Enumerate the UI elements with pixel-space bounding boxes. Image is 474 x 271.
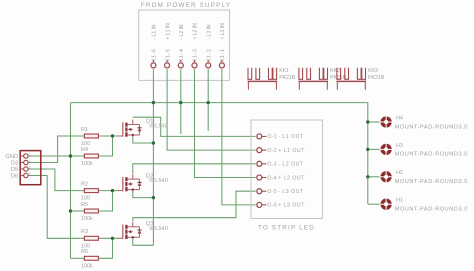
wire +L1 IN to O-2 bbox=[167, 69, 256, 150]
svg-text:+ L2 OUT: + L2 OUT bbox=[278, 175, 305, 181]
svg-text:IRL540: IRL540 bbox=[149, 124, 168, 130]
transistor Q3 IRL540 bbox=[118, 221, 168, 239]
pin D3 bbox=[11, 159, 31, 167]
svg-text:+ L3 OUT: + L3 OUT bbox=[278, 203, 305, 209]
junction bbox=[111, 189, 114, 192]
svg-text:H2: H2 bbox=[396, 170, 403, 176]
heatsink KK2 PK21B bbox=[299, 68, 347, 90]
mount pad H3 MOUNT-PAD-ROUND3.0 bbox=[380, 143, 468, 158]
mount pad H2 MOUNT-PAD-ROUND3.0 bbox=[380, 170, 468, 185]
svg-text:R4: R4 bbox=[81, 147, 88, 153]
junction bbox=[366, 120, 369, 123]
svg-text:D6: D6 bbox=[11, 173, 18, 179]
svg-text:100k: 100k bbox=[81, 161, 93, 167]
svg-text:X1-4: X1-4 bbox=[179, 49, 185, 63]
wire R2 to gate Q2 bbox=[98, 190, 118, 192]
junction bbox=[152, 196, 155, 199]
pin X1-6 net - L1 IN bbox=[151, 24, 158, 68]
wire Q2 source to GND bbox=[133, 190, 154, 198]
wire +L2 IN to O-4 bbox=[195, 69, 256, 177]
mount pad H1 MOUNT-PAD-ROUND3.0 bbox=[380, 198, 468, 213]
pin O-3 net - L2 OUT bbox=[257, 161, 304, 167]
pin X1-4 net - L2 IN bbox=[178, 24, 185, 68]
wire D3 to R1 bbox=[28, 136, 84, 163]
resistor R1 100 bbox=[81, 127, 98, 147]
svg-text:+ L2 IN: + L2 IN bbox=[193, 23, 199, 40]
svg-text:R3: R3 bbox=[81, 229, 88, 235]
svg-text:- L1 IN: - L1 IN bbox=[152, 24, 158, 39]
svg-text:X1-6: X1-6 bbox=[152, 49, 158, 63]
svg-text:O-5: O-5 bbox=[267, 189, 277, 195]
svg-text:100k: 100k bbox=[81, 263, 93, 269]
heatsink KK3 PK21B bbox=[337, 68, 385, 90]
svg-text:MOUNT-PAD-ROUND3.0: MOUNT-PAD-ROUND3.0 bbox=[395, 152, 468, 158]
wire R5 to gate junction bbox=[98, 191, 112, 211]
wire GND left vertical bbox=[70, 103, 72, 259]
wire Q3 drain to output bbox=[133, 191, 256, 221]
wire D5 to R2 bbox=[28, 169, 84, 191]
resistor R6 100k bbox=[81, 249, 98, 269]
svg-text:TO STRIP LED: TO STRIP LED bbox=[258, 225, 315, 232]
svg-text:R5: R5 bbox=[81, 202, 88, 208]
junction bbox=[152, 141, 155, 144]
svg-text:IRL540: IRL540 bbox=[149, 226, 168, 232]
svg-text:O-2: O-2 bbox=[267, 148, 277, 154]
svg-text:- L2 OUT: - L2 OUT bbox=[278, 162, 304, 168]
svg-text:- L2 IN: - L2 IN bbox=[179, 24, 185, 39]
svg-text:+ L1 OUT: + L1 OUT bbox=[278, 148, 305, 154]
svg-text:100: 100 bbox=[81, 196, 90, 202]
wire R6 to gate junction bbox=[98, 238, 112, 258]
svg-text:KK2: KK2 bbox=[330, 68, 340, 74]
svg-text:KK1: KK1 bbox=[279, 68, 289, 74]
svg-text:1: 1 bbox=[29, 152, 31, 156]
svg-text:+ L3 IN: + L3 IN bbox=[220, 23, 226, 40]
svg-text:R6: R6 bbox=[81, 249, 88, 255]
wire -L2 IN stub bbox=[180, 69, 182, 134]
svg-text:PK21B: PK21B bbox=[368, 75, 385, 81]
svg-text:PK21B: PK21B bbox=[279, 75, 296, 81]
wire -L1 IN vertical (net GND) bbox=[152, 69, 154, 245]
svg-text:GND: GND bbox=[5, 154, 18, 160]
wire -L3 IN stub bbox=[207, 69, 209, 131]
svg-text:X1-2: X1-2 bbox=[206, 49, 212, 63]
connector TO STRIP LED box bbox=[251, 120, 323, 232]
svg-text:100k: 100k bbox=[81, 216, 93, 222]
junction bbox=[111, 134, 114, 137]
transistor Q1 IRL540 bbox=[118, 119, 168, 137]
resistor R4 100k bbox=[81, 147, 98, 167]
pin X1-2 net - L3 IN bbox=[206, 24, 213, 68]
svg-text:IRL540: IRL540 bbox=[149, 178, 168, 184]
junction bbox=[366, 148, 369, 151]
junction bbox=[111, 237, 114, 240]
pin O-6 net + L3 OUT bbox=[257, 202, 305, 208]
svg-text:FROM POWER SUPPLY: FROM POWER SUPPLY bbox=[141, 2, 231, 9]
connector SV1 box bbox=[20, 151, 41, 185]
svg-text:O-3: O-3 bbox=[267, 162, 277, 168]
junction bbox=[152, 101, 155, 104]
svg-text:MOUNT-PAD-ROUND3.0: MOUNT-PAD-ROUND3.0 bbox=[395, 207, 468, 213]
pin X1-1 net + L3 IN bbox=[219, 23, 226, 68]
svg-text:- L1 OUT: - L1 OUT bbox=[278, 134, 304, 140]
svg-text:4: 4 bbox=[29, 172, 31, 176]
junction bbox=[69, 154, 72, 157]
svg-text:- L3 IN: - L3 IN bbox=[206, 24, 212, 39]
wire Q3 source to GND bbox=[133, 237, 154, 245]
resistor R3 100 bbox=[81, 229, 98, 249]
wire Q2 drain to output bbox=[133, 164, 256, 174]
svg-text:MOUNT-PAD-ROUND3.0: MOUNT-PAD-ROUND3.0 bbox=[395, 179, 468, 185]
wire GND bus bbox=[71, 103, 368, 204]
svg-text:O-6: O-6 bbox=[267, 203, 277, 209]
wire R3 to gate Q3 bbox=[98, 237, 118, 239]
svg-text:R1: R1 bbox=[81, 127, 88, 133]
svg-text:O-1: O-1 bbox=[267, 134, 277, 140]
svg-text:R2: R2 bbox=[81, 181, 88, 187]
junction bbox=[366, 175, 369, 178]
pin O-2 net + L1 OUT bbox=[257, 148, 305, 154]
svg-text:2: 2 bbox=[29, 159, 31, 163]
mount pad H4 MOUNT-PAD-ROUND3.0 bbox=[380, 115, 468, 130]
heatsink KK1 PK21B bbox=[248, 68, 296, 90]
svg-text:- L3 OUT: - L3 OUT bbox=[278, 189, 304, 195]
svg-text:MOUNT-PAD-ROUND3.0: MOUNT-PAD-ROUND3.0 bbox=[395, 124, 468, 130]
svg-text:X1-3: X1-3 bbox=[193, 49, 199, 63]
pin X1-5 net + L1 IN bbox=[165, 23, 172, 68]
svg-text:H4: H4 bbox=[396, 115, 403, 121]
svg-text:+ L1 IN: + L1 IN bbox=[165, 23, 171, 40]
resistor R2 100 bbox=[81, 181, 98, 201]
svg-text:D5: D5 bbox=[11, 167, 18, 173]
transistor Q2 IRL540 bbox=[118, 173, 168, 191]
svg-text:D3: D3 bbox=[11, 160, 18, 166]
pin O-5 net - L3 OUT bbox=[257, 189, 304, 195]
junction bbox=[69, 209, 72, 212]
wire mount pad H3 bbox=[368, 148, 381, 150]
wire mount pad H2 bbox=[368, 176, 381, 178]
pin X1-3 net + L2 IN bbox=[192, 23, 199, 68]
svg-text:X1-1: X1-1 bbox=[220, 49, 226, 63]
wire Q1 drain to output bbox=[133, 117, 256, 136]
wire Q1 source to GND bbox=[133, 135, 154, 143]
connector X1 FROM POWER SUPPLY box bbox=[139, 2, 231, 80]
wire R4 to gate junction bbox=[98, 136, 112, 156]
wire R5 row bbox=[71, 210, 85, 212]
svg-text:O-4: O-4 bbox=[267, 175, 277, 181]
wire mount pad H4 bbox=[368, 121, 381, 123]
pin O-4 net + L2 OUT bbox=[257, 175, 305, 181]
svg-text:H3: H3 bbox=[396, 143, 403, 149]
wire R1 to gate Q1 bbox=[98, 135, 118, 137]
wire D6 to R3 bbox=[28, 176, 84, 239]
svg-text:3: 3 bbox=[29, 165, 31, 169]
svg-text:X1-5: X1-5 bbox=[165, 49, 171, 63]
wire GND pin to R4 bbox=[28, 155, 84, 157]
svg-text:H1: H1 bbox=[396, 198, 403, 204]
pin D5 bbox=[11, 165, 31, 173]
wire mount pad H1 bbox=[368, 203, 381, 205]
pin GND bbox=[5, 152, 30, 160]
svg-text:KK3: KK3 bbox=[368, 68, 378, 74]
wire +L3 IN to O-6 bbox=[222, 69, 256, 205]
wire R6 row bbox=[71, 257, 85, 259]
junction bbox=[207, 101, 210, 104]
pin D6 bbox=[11, 172, 31, 180]
resistor R5 100k bbox=[81, 202, 98, 222]
junction bbox=[179, 101, 182, 104]
pin O-1 net - L1 OUT bbox=[257, 134, 304, 140]
